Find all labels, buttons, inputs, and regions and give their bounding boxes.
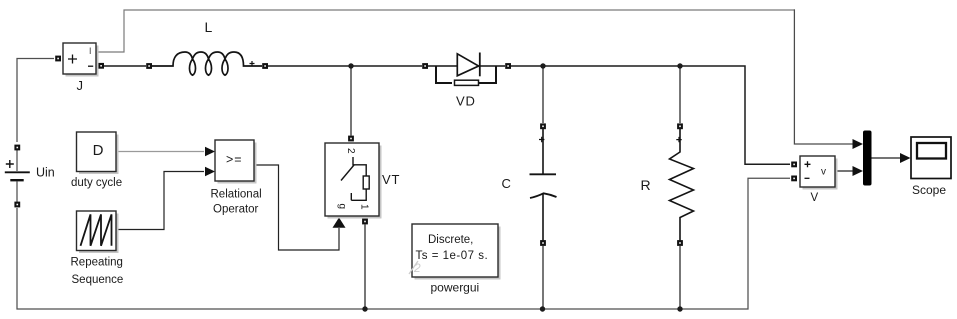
svg-text:Repeating: Repeating [71,257,123,269]
svg-text:v: v [821,167,826,178]
svg-text:Discrete,: Discrete, [428,234,473,246]
svg-text:C: C [502,176,511,191]
svg-text:Sequence: Sequence [72,274,124,286]
svg-text:D: D [93,142,104,159]
svg-text:duty cycle: duty cycle [71,177,122,189]
svg-text:VT: VT [382,172,400,187]
svg-text:1: 1 [359,204,370,210]
svg-text:Scope: Scope [912,183,946,197]
svg-text:Ts = 1e-07 s.: Ts = 1e-07 s. [416,250,489,262]
svg-text:Relational: Relational [211,189,262,201]
svg-text:VD: VD [456,94,476,109]
svg-text:g: g [337,204,348,210]
svg-text:J: J [77,78,84,93]
svg-text:>=: >= [226,153,243,167]
svg-text:powergui: powergui [431,281,480,295]
svg-text:2: 2 [345,148,356,154]
svg-text:Operator: Operator [213,204,259,216]
svg-text:L: L [205,19,213,35]
svg-text:Uin: Uin [36,165,55,179]
svg-text:V: V [811,192,819,204]
svg-text:R: R [641,177,651,193]
